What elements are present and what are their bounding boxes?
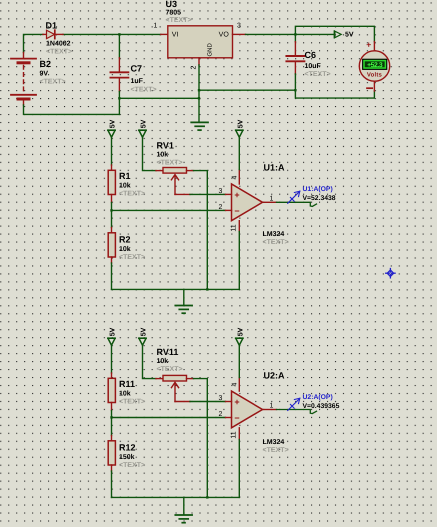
ground symbol middle <box>175 306 192 314</box>
wire ground stem bottom <box>183 497 185 514</box>
node junction pin2 ground line <box>198 89 200 91</box>
svg-text:1N4002: 1N4002 <box>46 41 71 48</box>
wire battery negative to bottom rail <box>24 105 120 114</box>
power terminal 5V A3 <box>236 119 245 137</box>
svg-text:5V: 5V <box>345 32 354 39</box>
wire op-amp output U1 <box>277 202 317 206</box>
wire 5V B2 to RV11 left <box>143 345 157 378</box>
svg-text:150k: 150k <box>119 453 135 461</box>
svg-text:+: + <box>366 40 371 50</box>
svg-text:+: + <box>234 190 239 200</box>
svg-text:<TEXT>: <TEXT> <box>119 191 145 198</box>
svg-text:U2:A(OP): U2:A(OP) <box>303 394 333 401</box>
svg-text:D1: D1 <box>46 21 58 31</box>
svg-text:4: 4 <box>231 175 238 179</box>
svg-text:10k: 10k <box>119 182 131 190</box>
svg-text:+52.3: +52.3 <box>367 62 383 69</box>
svg-text:11: 11 <box>230 224 237 231</box>
svg-text:R11: R11 <box>119 379 135 389</box>
svg-text:4: 4 <box>231 382 238 386</box>
ground symbol top <box>191 122 208 130</box>
svg-text:LM324: LM324 <box>263 439 285 446</box>
wire 5V A2 to RV1 left <box>143 137 157 170</box>
svg-text:C6: C6 <box>305 50 317 60</box>
svg-text:10k: 10k <box>157 357 169 365</box>
svg-text:−: − <box>234 413 239 423</box>
svg-text:GND: GND <box>206 43 213 57</box>
wire op-amp U2 pin11 to rail <box>238 440 240 498</box>
svg-text:9V: 9V <box>40 71 49 78</box>
potentiometer RV11 <box>156 375 194 401</box>
node junction RV11 rail <box>206 496 208 498</box>
wire C6 bottom to ground line <box>295 74 374 98</box>
voltmeter body <box>359 51 389 81</box>
svg-text:2: 2 <box>219 411 223 418</box>
voltmeter minus sign <box>367 87 372 89</box>
power terminal 5V rail A1 <box>108 119 117 137</box>
wire ground rail bottom <box>112 496 240 498</box>
capacitor C6 <box>286 42 304 74</box>
svg-text:RV1: RV1 <box>157 141 174 151</box>
wire C7 to ground net <box>119 97 199 99</box>
wire divider to op-amp pin2 <box>112 209 226 211</box>
node junction C7 top <box>118 33 120 35</box>
wire R2 to rail <box>111 263 113 289</box>
svg-text:V=52.3438: V=52.3438 <box>303 195 336 202</box>
wire 5V A3 to op-amp pin4 <box>238 137 240 169</box>
svg-text:10uF: 10uF <box>305 63 322 70</box>
wire RV1 wiper to op-amp pin3 <box>190 193 226 195</box>
power terminal 5V A2 <box>139 119 148 137</box>
node junction pin2 C7 line <box>198 97 200 99</box>
svg-text:U3: U3 <box>166 0 178 9</box>
regulator U3 pin 2 lead <box>198 58 200 65</box>
power terminal 5V B3 <box>236 327 245 345</box>
wire R11 to R12 <box>111 411 113 436</box>
resistor R1 <box>108 165 115 203</box>
wire R12 to rail <box>111 471 113 497</box>
node junction R1 R2 divider <box>110 209 112 211</box>
battery B2 <box>11 53 36 106</box>
node junction RV1 rail <box>206 288 208 290</box>
node junction C7 ground <box>118 97 120 99</box>
svg-text:<TEXT>: <TEXT> <box>157 160 183 167</box>
regulator U3 pin 1 lead <box>161 33 168 35</box>
svg-text:5V: 5V <box>110 327 117 336</box>
wire op-amp pin11 to rail <box>238 232 240 290</box>
wire RV11 right to ground rail <box>194 379 208 498</box>
svg-text:<TEXT>: <TEXT> <box>157 366 183 373</box>
svg-text:−: − <box>234 206 239 216</box>
svg-text:U2:A: U2:A <box>264 371 286 381</box>
diode D1 <box>43 30 63 38</box>
power terminal 5V output <box>334 31 354 39</box>
svg-text:<TEXT>: <TEXT> <box>119 462 145 469</box>
svg-text:<TEXT>: <TEXT> <box>263 239 289 246</box>
regulator U3 pin 3 lead <box>233 33 246 35</box>
svg-text:1: 1 <box>270 196 274 203</box>
svg-text:1: 1 <box>154 23 158 30</box>
wire U3 pin2 down to ground <box>198 65 200 122</box>
svg-text:Volts: Volts <box>367 71 383 78</box>
svg-text:<TEXT>: <TEXT> <box>119 254 145 261</box>
voltmeter minus lead <box>373 81 375 91</box>
svg-text:1: 1 <box>270 403 274 410</box>
resistor R2 <box>108 228 115 264</box>
regulator U3 body <box>168 26 233 58</box>
wire U3 ground net horizontal <box>199 89 295 91</box>
svg-text:5V: 5V <box>237 327 244 336</box>
svg-text:B2: B2 <box>40 59 52 69</box>
origin marker <box>386 269 395 278</box>
svg-text:VI: VI <box>172 32 179 39</box>
wire op-amp output U2 <box>277 410 317 414</box>
svg-text:VO: VO <box>219 32 230 39</box>
svg-text:3: 3 <box>219 395 223 402</box>
svg-text:<TEXT>: <TEXT> <box>305 71 331 78</box>
svg-text:10k: 10k <box>119 390 131 398</box>
svg-text:<TEXT>: <TEXT> <box>119 399 145 406</box>
probe U1 output <box>288 191 300 203</box>
wire output node up and to voltmeter plus <box>295 26 374 41</box>
power terminal 5V B2 <box>139 327 148 345</box>
probe U2 output <box>288 398 300 410</box>
wire 5V A1 to R1 <box>111 137 113 165</box>
svg-text:5V: 5V <box>110 119 117 128</box>
ground symbol bottom <box>175 515 192 523</box>
svg-text:V=0.439365: V=0.439365 <box>303 403 340 410</box>
svg-text:<TEXT>: <TEXT> <box>46 49 72 56</box>
resistor R12 <box>108 436 115 472</box>
svg-text:C7: C7 <box>131 64 143 74</box>
svg-text:11: 11 <box>230 431 237 438</box>
svg-text:2: 2 <box>219 204 223 211</box>
svg-text:<TEXT>: <TEXT> <box>166 17 192 24</box>
op-amp U2:A <box>226 378 277 440</box>
svg-text:3: 3 <box>219 188 223 195</box>
svg-text:3: 3 <box>237 23 241 30</box>
voltmeter LCD display <box>363 59 387 69</box>
wire 5V B1 to R11 <box>111 345 113 373</box>
wire top rail left segment <box>24 34 44 52</box>
node junction C6 bottom <box>294 89 296 91</box>
wire RV1 right to ground rail <box>194 171 208 290</box>
wire ground rail middle <box>112 288 240 290</box>
wire RV11 wiper to op-amp pin3 <box>190 401 226 403</box>
svg-text:U1:A(OP): U1:A(OP) <box>303 186 333 193</box>
svg-text:<TEXT>: <TEXT> <box>40 79 66 86</box>
wire U3 output to 5V terminal <box>246 33 335 35</box>
svg-text:LM324: LM324 <box>263 231 285 238</box>
svg-text:5V: 5V <box>141 119 148 128</box>
svg-text:7805: 7805 <box>166 10 182 17</box>
wire R1 to R2 <box>111 203 113 228</box>
wire ground stem middle <box>183 289 185 305</box>
svg-text:RV11: RV11 <box>157 347 179 357</box>
wire top rail diode to U3 <box>63 33 161 35</box>
voltmeter plus lead <box>373 42 375 52</box>
op-amp U1:A <box>226 170 277 232</box>
svg-text:10k: 10k <box>157 151 169 159</box>
svg-text:1uF: 1uF <box>131 78 144 85</box>
svg-text:U1:A: U1:A <box>264 163 286 173</box>
svg-text:10k: 10k <box>119 245 131 253</box>
svg-text:5V: 5V <box>237 119 244 128</box>
wire divider to op-amp U2 pin2 <box>112 417 226 419</box>
capacitor C7 <box>110 34 128 114</box>
svg-text:R12: R12 <box>119 443 136 453</box>
svg-text:2: 2 <box>191 65 198 69</box>
resistor R11 <box>108 373 115 411</box>
svg-text:R2: R2 <box>119 235 131 245</box>
svg-text:+: + <box>234 397 239 407</box>
svg-text:5V: 5V <box>141 327 148 336</box>
node junction R11 R12 divider <box>110 416 112 418</box>
svg-text:<TEXT>: <TEXT> <box>263 447 289 454</box>
wire 5V B3 to op-amp U2 pin4 <box>238 345 240 377</box>
svg-text:R1: R1 <box>119 171 131 181</box>
node junction output net <box>294 33 296 35</box>
potentiometer RV1 <box>156 168 194 195</box>
power terminal 5V rail B1 <box>108 327 117 345</box>
svg-text:<TEXT>: <TEXT> <box>131 87 157 94</box>
